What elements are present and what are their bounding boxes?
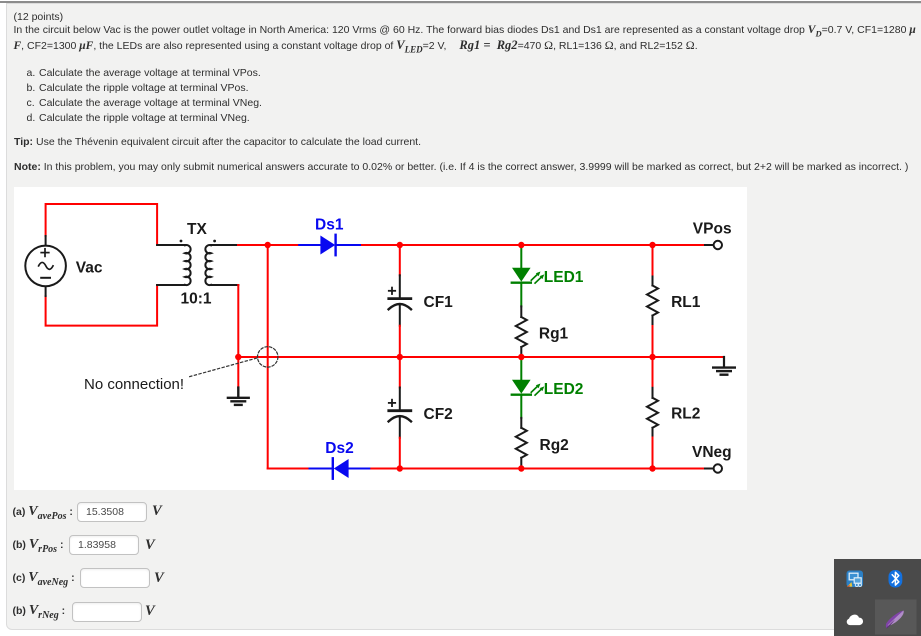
svg-text:No connection!: No connection! — [84, 376, 184, 393]
ac source Vac — [25, 236, 66, 296]
transformer secondary phase dot — [213, 240, 216, 243]
transformer TX primary winding — [157, 245, 191, 285]
wire middle rail (0 V net) — [238, 356, 724, 358]
ground (middle rail right) — [713, 357, 735, 375]
svg-text:TX: TX — [187, 221, 207, 238]
svg-text:VNeg: VNeg — [692, 444, 732, 461]
ground (transformer secondary center) — [228, 357, 249, 405]
answer row c — [13, 571, 75, 589]
resistor Rg2 — [516, 418, 527, 469]
answer row a — [13, 505, 73, 523]
svg-text:Ds1: Ds1 — [315, 216, 344, 233]
LED LED2 — [512, 357, 545, 418]
capacitor CF1 — [389, 245, 411, 357]
svg-text:Rg1: Rg1 — [539, 326, 569, 343]
svg-text:10:1: 10:1 — [181, 291, 212, 308]
taskbar overlay — [834, 559, 921, 636]
svg-text:VPos: VPos — [693, 221, 732, 238]
svg-text:RL1: RL1 — [671, 294, 701, 311]
wire top rail secondary to Ds1 anode — [238, 244, 299, 246]
resistor RL1 — [647, 245, 658, 357]
answer row d — [13, 604, 66, 622]
LED LED1 — [512, 245, 545, 306]
circuit schematic — [14, 187, 747, 490]
diode Ds2 — [310, 458, 370, 478]
svg-text:Rg2: Rg2 — [540, 437, 569, 454]
resistor Rg1 — [516, 306, 527, 357]
problem text — [14, 11, 64, 24]
bluetooth icon — [889, 570, 903, 588]
wire Vac top loop (source plus to transformer primary pin 1) — [46, 204, 158, 245]
junction bottom rail / CF2 — [397, 465, 403, 471]
terminal VPos — [714, 241, 722, 249]
terminal VNeg — [714, 464, 722, 472]
junction top rail / RL1 — [649, 242, 655, 248]
wire top rail Ds1 cathode to VPos — [360, 244, 705, 246]
no-connection crossing marker (dashed circle) — [258, 347, 278, 367]
junction bottom rail / RL2 — [649, 465, 655, 471]
junction middle rail / RL1-RL2 — [649, 354, 655, 360]
svg-text:Vac: Vac — [76, 260, 103, 277]
wire VPos terminal lead — [705, 244, 713, 246]
answer row b — [13, 538, 64, 556]
onedrive cloud icon — [849, 615, 857, 623]
wire secondary bottom drop to middle rail — [237, 285, 239, 357]
svg-text:CF2: CF2 — [424, 406, 453, 423]
hover square — [875, 600, 917, 635]
svg-text:RL2: RL2 — [671, 405, 700, 422]
junction top rail / LED1 — [518, 242, 524, 248]
wire vertical branch top rail to bottom rail (crosses middle rail, no connection) — [267, 245, 269, 469]
junction bottom rail / Rg2 — [518, 465, 524, 471]
junction top rail / branch — [265, 242, 271, 248]
feather icon — [886, 611, 904, 629]
junction middle rail / Rg1-LED2 — [518, 354, 524, 360]
svg-text:CF1: CF1 — [424, 294, 454, 311]
diode Ds1 — [299, 235, 360, 255]
wire VNeg terminal lead — [705, 468, 713, 470]
svg-text:Ds2: Ds2 — [325, 440, 353, 457]
svg-text:LED1: LED1 — [544, 269, 584, 286]
wire Vac bottom loop (source minus to transformer primary pin 2) — [46, 285, 158, 326]
transformer primary phase dot — [180, 240, 183, 243]
transformer TX secondary winding — [205, 245, 238, 285]
junction middle rail / secondary drop — [235, 354, 241, 360]
network icon — [847, 571, 864, 588]
wire bottom rail left segment — [268, 468, 310, 470]
resistor RL2 — [647, 357, 658, 469]
junction top rail / CF1 — [397, 242, 403, 248]
no-connection leader line — [190, 358, 258, 377]
wire bottom rail Ds2 anode to VNeg — [369, 468, 705, 470]
capacitor CF2 — [389, 357, 411, 469]
junction middle rail / CF1-CF2 — [397, 354, 403, 360]
svg-text:LED2: LED2 — [544, 381, 584, 398]
